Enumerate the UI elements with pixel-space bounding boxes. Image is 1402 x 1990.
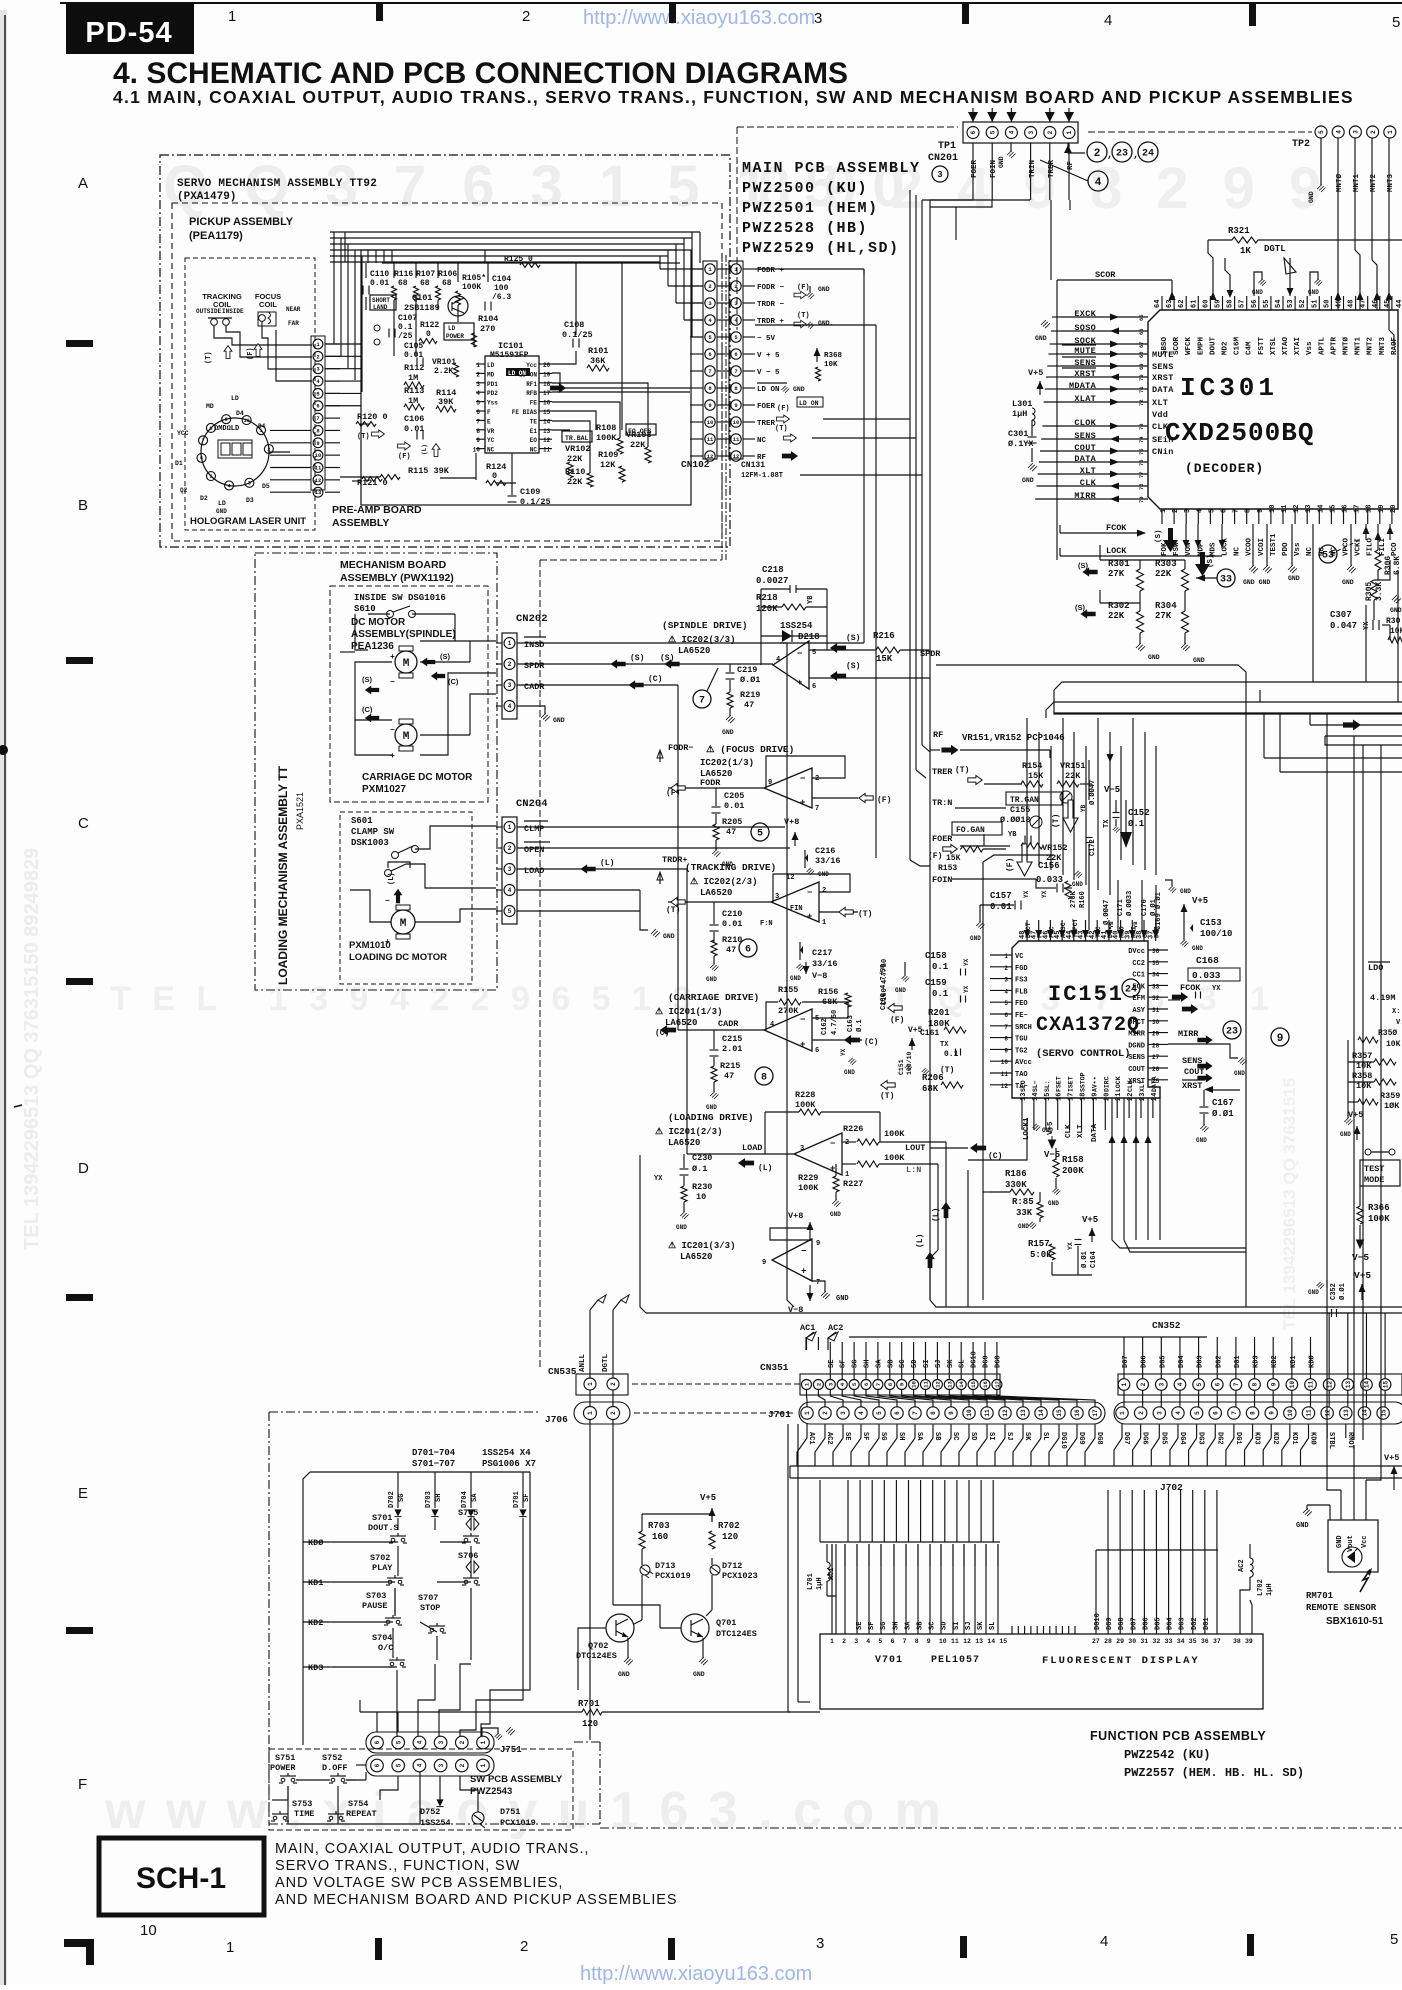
svg-text:S753: S753 — [292, 1799, 312, 1809]
svg-text:(T): (T) — [1052, 814, 1061, 828]
svg-text:R368: R368 — [824, 352, 843, 360]
op-amp IC201 3/3 — [772, 1239, 812, 1281]
svg-text:FSTT: FSTT — [1258, 336, 1266, 355]
svg-text:200K: 200K — [1062, 1166, 1084, 1176]
svg-text:+: + — [390, 752, 395, 761]
svg-text:(S): (S) — [630, 654, 644, 663]
svg-text:KD2: KD2 — [308, 1618, 323, 1628]
svg-text:33: 33 — [1220, 575, 1232, 586]
svg-text:0.01: 0.01 — [722, 919, 742, 929]
svg-text:4: 4 — [1175, 1411, 1182, 1415]
svg-text:TE: TE — [530, 418, 538, 425]
svg-text:3: 3 — [1158, 1382, 1165, 1386]
svg-text:C161: C161 — [920, 1029, 939, 1038]
svg-text:4: 4 — [228, 483, 231, 489]
svg-text:C157: C157 — [990, 891, 1012, 901]
svg-text:31: 31 — [1152, 1007, 1160, 1014]
svg-text:2: 2 — [520, 1938, 528, 1955]
svg-text:MDS: MDS — [1209, 542, 1217, 556]
clamp switches — [392, 852, 399, 859]
svg-text:R205: R205 — [722, 817, 742, 827]
svg-text:6: 6 — [374, 1763, 381, 1767]
corridor nested right of IC301 — [1054, 682, 1402, 690]
svg-text:SG: SG — [879, 1432, 887, 1440]
svg-text:SA: SA — [915, 1432, 923, 1441]
svg-text:SERVO MECHANISM ASSEMBLY TT92: SERVO MECHANISM ASSEMBLY TT92 — [177, 178, 377, 190]
svg-text:10: 10 — [140, 1922, 157, 1939]
svg-text:5: 5 — [1318, 130, 1325, 134]
svg-text:6: 6 — [734, 351, 737, 358]
svg-text:100/10: 100/10 — [906, 1051, 913, 1075]
svg-text:−: − — [800, 1015, 805, 1025]
svg-text:7: 7 — [202, 438, 205, 444]
svg-text:7: 7 — [1233, 509, 1241, 513]
svg-text:CXD2500BQ: CXD2500BQ — [1165, 418, 1314, 448]
op-amp carriage — [764, 1009, 812, 1051]
svg-text:8: 8 — [761, 1073, 767, 1084]
svg-text:4: 4 — [508, 887, 512, 894]
svg-text:D4: D4 — [236, 410, 244, 417]
pickup assembly dashed box — [172, 203, 722, 541]
svg-text:16: 16 — [1056, 1093, 1064, 1101]
grid tick left CD — [66, 978, 93, 985]
svg-text:12: 12 — [1002, 1409, 1009, 1417]
svg-text:TR.BAL: TR.BAL — [565, 435, 589, 442]
svg-text:18: 18 — [543, 381, 551, 388]
svg-text:YCC: YCC — [177, 430, 189, 437]
svg-text:R160: R160 — [1079, 891, 1087, 908]
svg-text:17: 17 — [1354, 505, 1362, 513]
SW PCB dashed box — [269, 1749, 573, 1830]
svg-text:9: 9 — [1004, 1047, 1008, 1054]
svg-text:15: 15 — [1382, 1381, 1389, 1389]
svg-text:SEin: SEin — [1152, 435, 1174, 445]
svg-text:(S): (S) — [846, 662, 860, 671]
svg-text:18: 18 — [1080, 1093, 1088, 1101]
gnd c169 — [1165, 880, 1172, 886]
svg-text:NC: NC — [487, 447, 495, 454]
svg-text:64: 64 — [1154, 300, 1162, 308]
svg-text:12K: 12K — [600, 460, 616, 470]
svg-text:GND: GND — [722, 729, 734, 736]
svg-text:4: 4 — [1009, 130, 1016, 134]
svg-text:FILO: FILO — [1367, 537, 1375, 556]
svg-text:DG2: DG2 — [1191, 1617, 1199, 1630]
loading input wires — [842, 1141, 856, 1143]
gnd rm701 — [1329, 1505, 1331, 1520]
svg-text:FILI: FILI — [1379, 538, 1387, 556]
svg-text:2: 2 — [508, 661, 512, 668]
bottom-left corner mark — [64, 1939, 94, 1965]
svg-text:SG: SG — [398, 1494, 406, 1502]
svg-text:DOUT.S: DOUT.S — [368, 1523, 399, 1533]
svg-text:(S): (S) — [1155, 529, 1163, 543]
TP1 input triangles — [968, 112, 978, 122]
svg-text:SSTOP: SSTOP — [1080, 1072, 1087, 1092]
svg-text:R357: R357 — [1352, 1051, 1372, 1061]
svg-text:DGTL: DGTL — [602, 1353, 610, 1372]
svg-text:SL:: SL: — [1044, 1080, 1051, 1092]
svg-text:YB: YB — [807, 595, 815, 604]
svg-text:LD ON: LD ON — [799, 400, 819, 407]
svg-text:FOIN: FOIN — [932, 875, 952, 885]
svg-text:1: 1 — [587, 1411, 594, 1415]
svg-text:IC202(1/3): IC202(1/3) — [700, 758, 754, 768]
svg-text:IC151: IC151 — [1048, 982, 1124, 1007]
svg-text:(F): (F) — [928, 852, 942, 861]
svg-text:⚠ IC201(2/3): ⚠ IC201(2/3) — [655, 1127, 722, 1137]
svg-text:15: 15 — [970, 1381, 977, 1388]
svg-text:STBL: STBL — [1327, 1432, 1335, 1449]
svg-text:TP1: TP1 — [938, 141, 956, 152]
svg-text:PWZ2557 (HEM. HB. HL. SD): PWZ2557 (HEM. HB. HL. SD) — [1124, 1766, 1304, 1780]
svg-text:C152: C152 — [1128, 808, 1150, 818]
svg-text:39K: 39K — [438, 397, 454, 407]
svg-text:6: 6 — [374, 1740, 381, 1744]
svg-text:15: 15 — [1380, 1409, 1387, 1417]
svg-text:(T): (T) — [858, 910, 872, 919]
svg-text:4. SCHEMATIC AND PCB CONNECTIO: 4. SCHEMATIC AND PCB CONNECTION DIAGRAMS — [113, 57, 848, 90]
svg-text:⚠ IC202(3/3): ⚠ IC202(3/3) — [668, 635, 735, 645]
svg-text:SJ: SJ — [935, 1360, 943, 1368]
svg-text:R105*: R105* — [462, 274, 486, 283]
more preamp verticals — [367, 250, 369, 263]
svg-text:S751: S751 — [275, 1753, 295, 1763]
V-5 right — [1357, 1240, 1364, 1248]
svg-text:5: 5 — [1196, 1382, 1203, 1386]
svg-text:4: 4 — [1100, 1933, 1108, 1950]
svg-text:SL−: SL− — [1032, 1080, 1039, 1092]
svg-text:4.7/50: 4.7/50 — [831, 1010, 839, 1035]
svg-text:Ø.Ø1: Ø.Ø1 — [740, 675, 760, 685]
svg-text:17: 17 — [1068, 1093, 1076, 1101]
svg-text:DTC124ES: DTC124ES — [576, 1651, 617, 1661]
svg-text:R366: R366 — [1368, 1203, 1390, 1213]
svg-text:RM701: RM701 — [1306, 1591, 1334, 1601]
svg-text:−: − — [830, 1139, 835, 1149]
svg-text:Ø.Ø1: Ø.Ø1 — [1212, 1109, 1234, 1119]
circled 23 9 — [1223, 1021, 1241, 1039]
svg-text:LDO: LDO — [1368, 963, 1383, 973]
TP2 wires down — [1337, 138, 1339, 310]
svg-text:12: 12 — [963, 1638, 971, 1645]
svg-text:+: + — [390, 653, 395, 662]
svg-text:9: 9 — [1270, 1382, 1277, 1386]
svg-text:R228: R228 — [795, 1090, 815, 1100]
svg-text:http://www.xiaoyu163.com: http://www.xiaoyu163.com — [580, 1963, 812, 1985]
svg-text:2: 2 — [508, 845, 512, 852]
svg-text:+: + — [801, 1267, 806, 1277]
svg-text:−: − — [390, 678, 395, 687]
svg-text:1: 1 — [226, 1939, 234, 1956]
svg-text:C110: C110 — [370, 270, 389, 279]
op-amp IC202 3/3 spindle — [773, 641, 809, 689]
svg-text:2: 2 — [459, 1740, 466, 1744]
svg-text:R701: R701 — [578, 1699, 600, 1709]
svg-text:MNTØ: MNTØ — [1342, 336, 1351, 355]
svg-text:0.01: 0.01 — [990, 902, 1012, 912]
sw row wires to J751 — [356, 1764, 366, 1766]
svg-text:MIRR: MIRR — [1178, 1029, 1199, 1039]
svg-text:D702: D702 — [388, 1491, 396, 1508]
svg-text:PWZ2529 (HL,SD): PWZ2529 (HL,SD) — [742, 240, 900, 257]
preamp pins to left column wires — [325, 343, 361, 345]
svg-text:13: 13 — [946, 1381, 953, 1388]
svg-text:C301: C301 — [1008, 429, 1028, 439]
svg-text:120: 120 — [722, 1532, 738, 1542]
svg-text:MAIN, COAXIAL OUTPUT, AUDIO TR: MAIN, COAXIAL OUTPUT, AUDIO TRANS., — [275, 1841, 589, 1857]
spindle motor — [395, 651, 417, 673]
svg-text:INSD: INSD — [524, 640, 544, 650]
svg-text:36: 36 — [1201, 1638, 1209, 1645]
svg-text:Ø.Ø1: Ø.Ø1 — [1338, 1283, 1347, 1300]
diodes row — [397, 1472, 399, 1508]
CN204 wires — [496, 826, 502, 828]
svg-text:68: 68 — [442, 279, 452, 288]
svg-text:TRER: TRER — [1048, 159, 1056, 178]
svg-text:L702: L702 — [1257, 1579, 1265, 1596]
grid tick left AB — [66, 340, 93, 347]
svg-text:9: 9 — [899, 1383, 906, 1386]
svg-text:73: 73 — [1138, 423, 1145, 430]
svg-text:C16M: C16M — [1234, 336, 1242, 355]
svg-text:2.01: 2.01 — [722, 1044, 742, 1054]
svg-text:SCOR: SCOR — [1173, 336, 1181, 355]
svg-text:Ø.ØØ47: Ø.ØØ47 — [1102, 900, 1111, 925]
svg-text:SE: SE — [856, 1622, 864, 1630]
svg-text:YX: YX — [963, 985, 970, 993]
svg-text:34: 34 — [1152, 972, 1160, 979]
svg-text:SE: SE — [828, 1360, 836, 1368]
tracking feedback loop — [773, 874, 850, 902]
wires CN201 trunk bends — [922, 745, 930, 752]
svg-text:R107: R107 — [416, 270, 435, 279]
svg-text:VR101: VR101 — [432, 358, 456, 367]
svg-text:TR.GAN: TR.GAN — [1010, 796, 1039, 805]
svg-text:11: 11 — [733, 436, 740, 443]
svg-text:12: 12 — [733, 453, 740, 460]
svg-text:R359: R359 — [1380, 1091, 1400, 1101]
svg-text:1SS254: 1SS254 — [780, 621, 813, 631]
svg-text:R210: R210 — [722, 935, 742, 945]
svg-text:1ØK: 1ØK — [1384, 1101, 1400, 1111]
svg-text:9: 9 — [476, 437, 480, 444]
svg-text:9: 9 — [1257, 509, 1265, 513]
left edge wires display — [787, 1424, 789, 1712]
svg-text:RMOT: RMOT — [1346, 1432, 1354, 1449]
svg-text:11: 11 — [315, 464, 322, 471]
svg-text:MD2: MD2 — [1222, 341, 1230, 355]
svg-text:CNin: CNin — [1152, 447, 1174, 457]
svg-text:TEST: TEST — [1364, 1164, 1384, 1174]
svg-text:PWZ2501 (HEM): PWZ2501 (HEM) — [742, 200, 879, 217]
svg-text:DG2: DG2 — [1215, 1432, 1223, 1445]
svg-text:DG9: DG9 — [983, 1355, 991, 1368]
svg-text:VR102: VR102 — [565, 444, 591, 454]
svg-text:STOP: STOP — [420, 1603, 440, 1613]
svg-text:SE: SE — [843, 1432, 851, 1440]
svg-text:(F): (F) — [890, 1016, 904, 1025]
tracking output — [668, 901, 771, 903]
svg-text:GND: GND — [1252, 289, 1263, 296]
svg-text:6: 6 — [1214, 1382, 1221, 1386]
svg-text:OPEN: OPEN — [524, 845, 544, 855]
svg-text:(F): (F) — [398, 453, 411, 461]
svg-text:4: 4 — [1196, 509, 1204, 513]
svg-text:4: 4 — [508, 703, 512, 710]
svg-text:EMPH: EMPH — [1197, 337, 1205, 355]
svg-text:T E L 1 3 9 4 2 2 9 6 5 1 3: T E L 1 3 9 4 2 2 9 6 5 1 3 — [110, 980, 697, 1018]
svg-text:KD3: KD3 — [1253, 1432, 1261, 1445]
svg-text:TEST1: TEST1 — [1270, 533, 1278, 556]
FO.OFS box — [626, 424, 656, 435]
svg-text:− 5V: − 5V — [757, 335, 776, 343]
svg-text:CN102: CN102 — [681, 459, 710, 470]
svg-text:0.1/25: 0.1/25 — [520, 497, 551, 507]
svg-text:XLT: XLT — [1139, 1080, 1146, 1092]
svg-text:2: 2 — [1138, 1411, 1145, 1415]
svg-text:LD ON: LD ON — [508, 370, 526, 377]
svg-text:V−8: V−8 — [812, 971, 827, 981]
svg-text:HOLOGRAM LASER UNIT: HOLOGRAM LASER UNIT — [190, 516, 306, 527]
svg-text:R702: R702 — [718, 1521, 740, 1531]
svg-text:DG1: DG1 — [1234, 1355, 1242, 1368]
svg-text:DG3: DG3 — [1179, 1617, 1187, 1630]
svg-text:R321: R321 — [1228, 226, 1250, 236]
svg-text:1: 1 — [845, 1171, 849, 1179]
svg-text:GND: GND — [836, 1295, 849, 1303]
svg-text:C107: C107 — [398, 314, 417, 323]
svg-text:6: 6 — [745, 945, 751, 956]
spindle input wires — [809, 649, 876, 651]
svg-text:Vcc: Vcc — [1361, 1535, 1369, 1548]
svg-text:⚠ IC202(2/3): ⚠ IC202(2/3) — [690, 877, 757, 887]
svg-text:9: 9 — [816, 1240, 820, 1248]
svg-text:GND: GND — [1308, 191, 1315, 203]
circled refs 2 23 24 — [1087, 142, 1107, 162]
svg-text:1: 1 — [822, 919, 826, 927]
IC151 right pins — [1148, 949, 1168, 951]
svg-text:C230: C230 — [692, 1153, 712, 1163]
svg-text:13: 13 — [1020, 1409, 1027, 1417]
svg-text:1K: 1K — [1240, 246, 1251, 256]
svg-text:LOAD: LOAD — [524, 866, 544, 876]
svg-text:DG3: DG3 — [1197, 1432, 1205, 1445]
svg-text:0: 0 — [426, 330, 431, 339]
small dash left margin — [14, 1105, 22, 1107]
svg-text:XRST: XRST — [1152, 373, 1174, 383]
svg-text:DG4: DG4 — [1178, 1432, 1186, 1445]
svg-text:78: 78 — [1138, 483, 1145, 490]
svg-text:20: 20 — [1390, 505, 1398, 513]
J701 row right — [1114, 1402, 1402, 1424]
svg-text:Ycc: Ycc — [526, 362, 537, 369]
grid tick bottom 2 — [668, 1938, 675, 1960]
svg-text:2: 2 — [708, 283, 711, 290]
svg-text:11: 11 — [984, 1409, 991, 1417]
RM701 remote sensor — [1328, 1520, 1378, 1572]
svg-text:TR:N: TR:N — [932, 798, 952, 808]
svg-text:R158: R158 — [1062, 1155, 1084, 1165]
loading mechanism outer dash-dot box — [255, 553, 497, 990]
svg-text:PLAY: PLAY — [372, 1563, 393, 1573]
svg-text:RF: RF — [757, 454, 767, 462]
svg-text:ASSEMBLY: ASSEMBLY — [332, 517, 389, 529]
svg-text:180K: 180K — [928, 1019, 950, 1029]
svg-text:9: 9 — [948, 1411, 955, 1415]
svg-text:D3: D3 — [246, 497, 254, 504]
svg-text:GND: GND — [216, 508, 227, 515]
svg-text:V+5: V+5 — [908, 1026, 923, 1035]
svg-text:MNT2: MNT2 — [1367, 336, 1375, 355]
svg-text:C205: C205 — [724, 791, 744, 801]
svg-text:DG10: DG10 — [1059, 1432, 1067, 1449]
carriage motor — [395, 724, 417, 746]
LD ON bar — [757, 382, 787, 384]
svg-text:11: 11 — [1281, 505, 1289, 513]
svg-text:7: 7 — [1233, 1382, 1240, 1386]
svg-text:MNT1: MNT1 — [1355, 336, 1363, 355]
svg-text:1: 1 — [1121, 1382, 1128, 1386]
svg-text:S701: S701 — [372, 1513, 392, 1523]
svg-text:(LOADING DRIVE): (LOADING DRIVE) — [668, 1112, 754, 1123]
svg-text:DG5: DG5 — [1155, 1617, 1163, 1630]
top border line — [60, 2, 1402, 4]
svg-text:CLMP: CLMP — [524, 824, 544, 834]
rm701 wires — [1340, 1490, 1342, 1520]
svg-text:C159: C159 — [925, 978, 947, 988]
svg-text:VR151: VR151 — [1060, 761, 1086, 771]
svg-text:MD: MD — [487, 371, 495, 378]
R30x wires — [1100, 559, 1185, 561]
circled 8 — [755, 1067, 773, 1085]
svg-text:−: − — [385, 897, 390, 906]
display stub pins — [1011, 1626, 1013, 1634]
svg-text:4: 4 — [417, 1740, 424, 1744]
svg-text:R226: R226 — [843, 1124, 863, 1134]
svg-text:12: 12 — [1293, 505, 1301, 513]
svg-text:79: 79 — [1138, 496, 1145, 503]
svg-text:1: 1 — [480, 1740, 487, 1744]
svg-text:3: 3 — [248, 481, 251, 487]
svg-text:C108: C108 — [564, 320, 584, 330]
svg-text:C168: C168 — [1196, 955, 1219, 966]
svg-text:6: 6 — [708, 351, 711, 358]
circled ref 4 — [1088, 171, 1108, 191]
svg-text:45: 45 — [1384, 300, 1392, 308]
svg-text:GND: GND — [1048, 1200, 1059, 1207]
svg-text:6: 6 — [891, 1638, 895, 1645]
svg-text:10: 10 — [707, 419, 714, 426]
svg-text:M: M — [400, 918, 407, 930]
svg-text:GND GND: GND GND — [1243, 579, 1270, 586]
svg-text:2: 2 — [822, 887, 826, 895]
trunk verticals right to bottom — [1326, 713, 1328, 1445]
wires CN102 left side vertical — [692, 336, 703, 338]
svg-text:PICKUP ASSEMBLY: PICKUP ASSEMBLY — [189, 216, 294, 228]
svg-text:M51593FP: M51593FP — [490, 351, 529, 360]
TP2 gnd — [1320, 138, 1322, 185]
svg-text:GND.: GND. — [818, 320, 834, 327]
svg-text:TRER: TRER — [932, 767, 953, 777]
svg-text:DG4: DG4 — [1167, 1617, 1175, 1630]
svg-text:APTL: APTL — [1318, 336, 1326, 355]
svg-text:D704: D704 — [461, 1491, 469, 1508]
big down arrow — [1125, 800, 1127, 832]
svg-text:POWER: POWER — [270, 1763, 296, 1773]
CN131 labels — [743, 268, 755, 270]
svg-text:S701−707: S701−707 — [412, 1459, 455, 1469]
